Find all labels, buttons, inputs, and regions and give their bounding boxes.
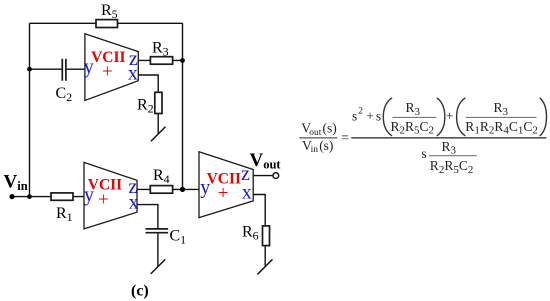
ground for R6 xyxy=(258,259,273,274)
ground for R2 xyxy=(151,127,166,142)
wire: C2 branch from node A to U1 y input xyxy=(30,68,85,70)
wire: U1 x output down to R2 xyxy=(138,75,158,92)
svg-text:R4: R4 xyxy=(153,167,170,186)
formula paren 2 close xyxy=(540,98,546,135)
svg-text:=: = xyxy=(341,130,349,145)
node A junction dot (C2 tap) xyxy=(27,67,32,72)
resistor R5 xyxy=(96,20,118,28)
node B junction dot (R4 / feedback) xyxy=(180,187,185,192)
svg-text:Vout: Vout xyxy=(250,150,282,172)
ground for C1 xyxy=(151,259,166,274)
node Z1 junction dot (R3 / feedback) xyxy=(180,58,185,63)
op-amp U2 VCII body xyxy=(84,162,137,229)
svg-text:(s): (s) xyxy=(323,121,337,136)
formula main fraction bar xyxy=(351,137,546,139)
wire: U1 z output through R3 to node Z1 xyxy=(138,59,182,61)
svg-text:C2: C2 xyxy=(56,85,73,104)
wire: R2 bottom to ground xyxy=(157,114,159,134)
svg-text:R6: R6 xyxy=(242,224,259,243)
svg-text:R5: R5 xyxy=(101,2,118,21)
svg-text:Vin: Vin xyxy=(4,172,28,194)
capacitor C1 xyxy=(146,229,169,233)
formula paren 2 open xyxy=(457,98,465,135)
svg-text:R3: R3 xyxy=(406,100,421,118)
wire: U3 x output down to R6 xyxy=(253,195,265,226)
capacitor C2 xyxy=(62,59,66,81)
terminal Vout circle xyxy=(273,173,279,179)
resistor R2 xyxy=(155,92,162,113)
svg-text:R3: R3 xyxy=(442,139,457,157)
formula paren 1 open xyxy=(383,98,391,135)
svg-text:+: + xyxy=(218,183,229,204)
svg-text:R2R5C2: R2R5C2 xyxy=(430,158,474,176)
svg-text:y: y xyxy=(200,177,210,199)
resistor R4 xyxy=(150,186,172,194)
svg-text:+: + xyxy=(366,109,374,124)
svg-text:R1: R1 xyxy=(56,205,73,224)
svg-text:s: s xyxy=(376,109,381,124)
svg-text:R2: R2 xyxy=(137,96,154,115)
svg-text:+: + xyxy=(102,62,113,83)
svg-text:s: s xyxy=(352,109,357,124)
svg-text:+: + xyxy=(98,190,109,211)
wire: Vin through R1 to U2 y input xyxy=(12,196,84,198)
resistor R6 xyxy=(263,226,270,246)
formula paren 1 close xyxy=(437,98,445,135)
wire: C1 bottom to ground xyxy=(157,233,159,266)
node Vin junction dot xyxy=(27,194,32,199)
wire: top feedback horizontal through R5 xyxy=(30,22,183,24)
svg-text:R3: R3 xyxy=(152,40,169,59)
op-amp U1 VCII body xyxy=(85,34,138,101)
svg-text:2: 2 xyxy=(358,107,363,117)
op-amp U3 VCII body xyxy=(199,152,253,218)
wire: R6 bottom to ground xyxy=(264,246,266,267)
svg-text:y: y xyxy=(84,56,94,78)
terminal Vin dot xyxy=(9,194,14,199)
svg-text:x: x xyxy=(129,192,139,214)
svg-text:in: in xyxy=(311,145,319,155)
wire: left vertical rail from top feedback to Vin node xyxy=(29,23,31,196)
svg-text:R2R5C2: R2R5C2 xyxy=(391,119,435,137)
wire: U2 x output down to C1 xyxy=(137,205,158,229)
formula frac2 bar xyxy=(466,116,537,118)
svg-text:(c): (c) xyxy=(131,283,149,300)
formula LHS bar xyxy=(299,137,337,139)
wire: right feedback vertical from top to node B xyxy=(182,23,184,189)
resistor R3 xyxy=(150,57,172,64)
formula frac1 bar xyxy=(393,116,437,118)
svg-text:y: y xyxy=(84,184,94,206)
svg-text:R3: R3 xyxy=(494,100,509,118)
resistor R1 xyxy=(51,193,73,200)
svg-text:+: + xyxy=(446,109,454,124)
svg-text:out: out xyxy=(309,128,322,138)
svg-text:x: x xyxy=(128,62,138,84)
svg-text:x: x xyxy=(242,181,252,203)
svg-text:R1R2R4C1C2: R1R2R4C1C2 xyxy=(465,119,538,137)
formula transfer function xyxy=(299,98,546,176)
wire: U3 z output to Vout terminal xyxy=(253,175,272,177)
svg-text:C1: C1 xyxy=(170,228,187,247)
wire: U2 z output through R4 to node B and U3 y input xyxy=(137,188,199,190)
svg-text:(s): (s) xyxy=(319,138,333,153)
svg-text:s: s xyxy=(421,146,426,161)
formula denom frac bar xyxy=(429,155,477,157)
